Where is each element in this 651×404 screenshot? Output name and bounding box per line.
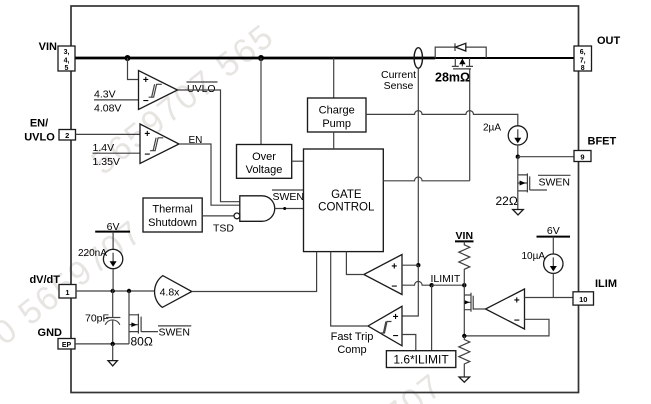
current sense ellipse bbox=[414, 48, 422, 69]
op-amp U2 EN comparator bbox=[140, 124, 179, 164]
svg-text:−: − bbox=[144, 150, 150, 161]
wire node to pin 9 bbox=[518, 156, 574, 158]
wire U5 - input to 1.6*ILIMIT bbox=[402, 335, 416, 351]
svg-text:+: + bbox=[393, 312, 399, 323]
svg-text:+: + bbox=[391, 262, 397, 273]
wire VIN rail thick bbox=[75, 57, 435, 60]
capacitor C1 70pF bbox=[112, 291, 114, 318]
wire pin2 to comparator U2 + input bbox=[76, 133, 141, 135]
diode D1 body diode loop bbox=[435, 47, 486, 58]
pin ILIM box 10 bbox=[573, 292, 594, 305]
svg-text:EP: EP bbox=[62, 342, 72, 349]
wire U2 output to AND gate input 2 bbox=[179, 144, 240, 205]
svg-text:Charge: Charge bbox=[319, 105, 355, 117]
wire 4.8x output to Gate Control bbox=[192, 252, 317, 292]
svg-text:6V: 6V bbox=[547, 225, 560, 237]
wire Over Voltage to Gate Control bbox=[292, 160, 304, 162]
ground below R2 bbox=[459, 377, 470, 382]
wire rail to Charge Pump bbox=[333, 58, 335, 98]
svg-text:5: 5 bbox=[65, 65, 69, 72]
svg-text:Voltage: Voltage bbox=[246, 164, 283, 176]
wire 220nA to node A bbox=[112, 269, 114, 291]
wire U1 output to AND gate input 1 bbox=[178, 90, 240, 202]
block 1.6*ILIMIT bbox=[386, 351, 455, 368]
svg-text:Fast Trip: Fast Trip bbox=[331, 331, 374, 343]
wire Charge Pump to Gate Control bbox=[333, 132, 335, 149]
svg-text:UVLO: UVLO bbox=[187, 83, 216, 95]
op-amp U5 fast trip comparator bbox=[368, 306, 402, 346]
svg-text:1.6*ILIMIT: 1.6*ILIMIT bbox=[393, 353, 449, 367]
wire Q1 gate to Gate Control bbox=[469, 69, 471, 181]
node dVdT B bbox=[127, 289, 131, 293]
svg-text:220nA: 220nA bbox=[78, 248, 107, 259]
svg-text:70pF: 70pF bbox=[85, 312, 109, 324]
svg-text:+: + bbox=[144, 129, 150, 140]
svg-text:7,: 7, bbox=[580, 58, 586, 65]
svg-text:28mΩ: 28mΩ bbox=[435, 71, 470, 85]
svg-text:1.35V: 1.35V bbox=[93, 156, 120, 168]
node dVdT A bbox=[111, 289, 115, 293]
svg-text:OUT: OUT bbox=[597, 35, 621, 47]
svg-text:−: − bbox=[391, 281, 397, 292]
svg-text:EN/: EN/ bbox=[30, 118, 48, 130]
wire current sense down to comparators bbox=[417, 68, 419, 265]
wire 2uA to BFET node bbox=[517, 145, 519, 157]
wire 4.3V threshold to U1 - input bbox=[94, 99, 139, 101]
svg-text:SWEN: SWEN bbox=[539, 177, 571, 189]
ground symbol main bbox=[112, 344, 114, 361]
svg-text:VIN: VIN bbox=[456, 230, 474, 242]
svg-text:10: 10 bbox=[579, 295, 587, 304]
watermark digits bbox=[0, 17, 450, 404]
svg-text:9: 9 bbox=[580, 152, 584, 161]
gate U3 AND (SWEN) bbox=[240, 196, 275, 222]
svg-text:UVLO: UVLO bbox=[24, 131, 55, 143]
current source I1 2uA bbox=[508, 126, 527, 145]
wire U6 + input to pin 10 bbox=[525, 297, 575, 299]
svg-text:VIN: VIN bbox=[39, 41, 57, 53]
svg-text:CONTROL: CONTROL bbox=[318, 202, 375, 214]
svg-text:ILIMIT: ILIMIT bbox=[431, 273, 461, 285]
svg-text:Sense: Sense bbox=[384, 80, 414, 92]
pin OUT box 6,7,8 bbox=[574, 46, 592, 71]
amp U7 4.8x bbox=[155, 276, 192, 308]
svg-text:8: 8 bbox=[581, 65, 585, 72]
svg-text:Thermal: Thermal bbox=[152, 203, 192, 215]
svg-text:2µA: 2µA bbox=[483, 123, 501, 134]
op-amp U1 UVLO comparator bbox=[139, 71, 178, 110]
wire Q3 gate to op-amp U6 output bbox=[473, 308, 485, 310]
svg-text:dV/dT: dV/dT bbox=[29, 274, 60, 286]
resistor R1 VIN to ILIMIT bbox=[459, 241, 470, 285]
wire AND output SWEN to Gate Control bbox=[275, 208, 304, 210]
node Q3 source bbox=[462, 334, 466, 338]
svg-text:SWEN: SWEN bbox=[273, 191, 305, 203]
op-amp U6 ILIM amp bbox=[486, 289, 525, 329]
net SWEN label at Q4 gate bbox=[158, 325, 191, 327]
svg-text:+: + bbox=[514, 295, 520, 306]
transistor Q1 28mohm power FET bbox=[452, 58, 459, 66]
transistor Q4 80ohm FET bbox=[128, 291, 130, 344]
svg-text:5659707: 5659707 bbox=[312, 366, 451, 404]
current source I3 220nA bbox=[112, 232, 114, 250]
svg-text:4,: 4, bbox=[64, 58, 70, 65]
svg-text:Shutdown: Shutdown bbox=[148, 217, 197, 229]
block Thermal Shutdown bbox=[143, 198, 202, 232]
svg-text:Pump: Pump bbox=[322, 118, 351, 130]
transistor Q3 ILIM FET bbox=[463, 285, 465, 336]
svg-text:BFET: BFET bbox=[588, 136, 617, 148]
ground below Q2 bbox=[513, 210, 524, 215]
svg-text:3,: 3, bbox=[64, 49, 70, 56]
wire 1.4V threshold to U2 - input bbox=[93, 152, 141, 154]
node on SWEN wire bbox=[283, 207, 286, 210]
svg-text:4.8x: 4.8x bbox=[160, 287, 181, 299]
svg-text:−: − bbox=[514, 315, 520, 326]
wire rail after FET to OUT bbox=[435, 57, 574, 59]
wire 10uA to ILIM wire bbox=[552, 273, 554, 297]
pin VIN box 3,4,5 bbox=[58, 46, 75, 71]
op-amp U4 current limit comparator bbox=[364, 255, 402, 295]
svg-text:−: − bbox=[393, 331, 399, 342]
svg-text:2: 2 bbox=[65, 131, 69, 140]
svg-text:+: + bbox=[143, 75, 149, 86]
svg-text:ILIM: ILIM bbox=[595, 278, 617, 290]
svg-text:Comp: Comp bbox=[337, 344, 366, 356]
svg-text:80Ω: 80Ω bbox=[131, 334, 153, 348]
wire U5 output to Gate Control bbox=[331, 252, 368, 326]
svg-text:Over: Over bbox=[252, 151, 276, 163]
svg-text:5970 5659707: 5970 5659707 bbox=[0, 213, 150, 392]
pin dV/dT box 1 bbox=[59, 285, 76, 299]
pin GND box EP bbox=[58, 339, 75, 350]
svg-text:4.08V: 4.08V bbox=[94, 103, 121, 115]
wire dV/dT rail bbox=[76, 290, 157, 292]
svg-text:10µA: 10µA bbox=[522, 251, 546, 262]
node ILIMIT left bbox=[429, 283, 433, 287]
block GATE CONTROL bbox=[304, 149, 384, 252]
wire ILIMIT to 1.6*ILIMIT block bbox=[431, 285, 433, 351]
pin BFET box 9 bbox=[574, 151, 591, 162]
svg-text:6,: 6, bbox=[580, 49, 586, 56]
block Charge Pump bbox=[308, 98, 367, 132]
svg-text:SWEN: SWEN bbox=[159, 327, 191, 339]
pin EN/UVLO box 2 bbox=[59, 130, 76, 141]
svg-text:1: 1 bbox=[65, 288, 69, 297]
net UVLO label bbox=[187, 81, 218, 83]
wire ILIMIT node pair bbox=[432, 284, 465, 286]
resistor R2 to ground bbox=[459, 336, 470, 377]
wire Thermal Shutdown TSD to AND gate bubble bbox=[202, 215, 234, 217]
gate U3 inverting bubble bbox=[234, 213, 240, 219]
wire GND rail bbox=[75, 343, 129, 345]
svg-text:1.4V: 1.4V bbox=[93, 142, 115, 154]
node BFET bbox=[516, 155, 520, 159]
transistor Q2 22ohm pulldown bbox=[517, 157, 519, 210]
IC outer border bbox=[71, 6, 579, 393]
node GND bbox=[111, 342, 115, 346]
wire rail to Over Voltage block bbox=[260, 58, 262, 145]
wire Charge Pump to 2uA source (with hops) bbox=[366, 111, 518, 126]
wire rail to comparator U1 + input bbox=[128, 58, 139, 80]
svg-text:TSD: TSD bbox=[213, 223, 234, 235]
svg-text:GATE: GATE bbox=[331, 189, 362, 201]
svg-text:−: − bbox=[143, 96, 149, 107]
node rail junction to UVLO comparator bbox=[125, 55, 131, 61]
net SWEN label at gate output bbox=[272, 189, 305, 191]
block Over Voltage bbox=[237, 145, 292, 179]
svg-text:4.3V: 4.3V bbox=[94, 89, 116, 101]
wire U6 - input feedback bbox=[464, 319, 549, 336]
net SWEN label at Q2 gate bbox=[538, 174, 571, 176]
current source I2 10uA bbox=[552, 237, 554, 254]
node rail junction to Over Voltage bbox=[258, 55, 264, 61]
svg-text:GND: GND bbox=[38, 327, 63, 339]
svg-text:22Ω: 22Ω bbox=[496, 194, 518, 208]
